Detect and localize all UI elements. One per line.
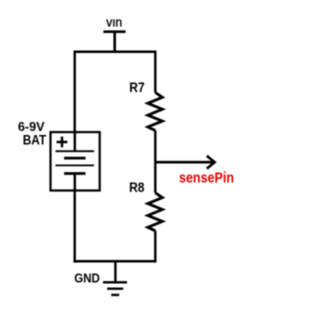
battery plus mark [57, 137, 68, 148]
power symbol VIN [103, 32, 125, 53]
battery BT1 box [51, 132, 100, 190]
battery plate 3 (long positive) [56, 164, 95, 166]
svg-text:BAT: BAT [23, 132, 47, 148]
wire right branch top [154, 51, 156, 93]
battery bottom lead [74, 174, 76, 191]
resistor R8 [148, 193, 163, 231]
wire R8 to bottom rail [154, 231, 156, 263]
svg-text:vın: vın [106, 15, 122, 29]
svg-text:GND: GND [74, 271, 100, 286]
battery plate 2 (short negative) [64, 157, 85, 160]
wire bottom rail [73, 260, 156, 263]
battery top lead [74, 132, 76, 151]
svg-text:R8: R8 [129, 179, 144, 195]
wire top rail [75, 50, 156, 53]
node sensePin arrow [155, 156, 214, 169]
svg-text:sensePin: sensePin [179, 170, 234, 186]
svg-text:R7: R7 [129, 79, 144, 95]
wire left branch vertical [73, 51, 75, 133]
battery plate 4 (short negative) [64, 172, 85, 175]
wire R7 to R8 [154, 131, 156, 193]
ground symbol [103, 261, 127, 295]
wire battery to bottom rail [73, 191, 75, 263]
battery plate 1 (long positive) [56, 150, 95, 152]
resistor R7 [148, 93, 163, 131]
